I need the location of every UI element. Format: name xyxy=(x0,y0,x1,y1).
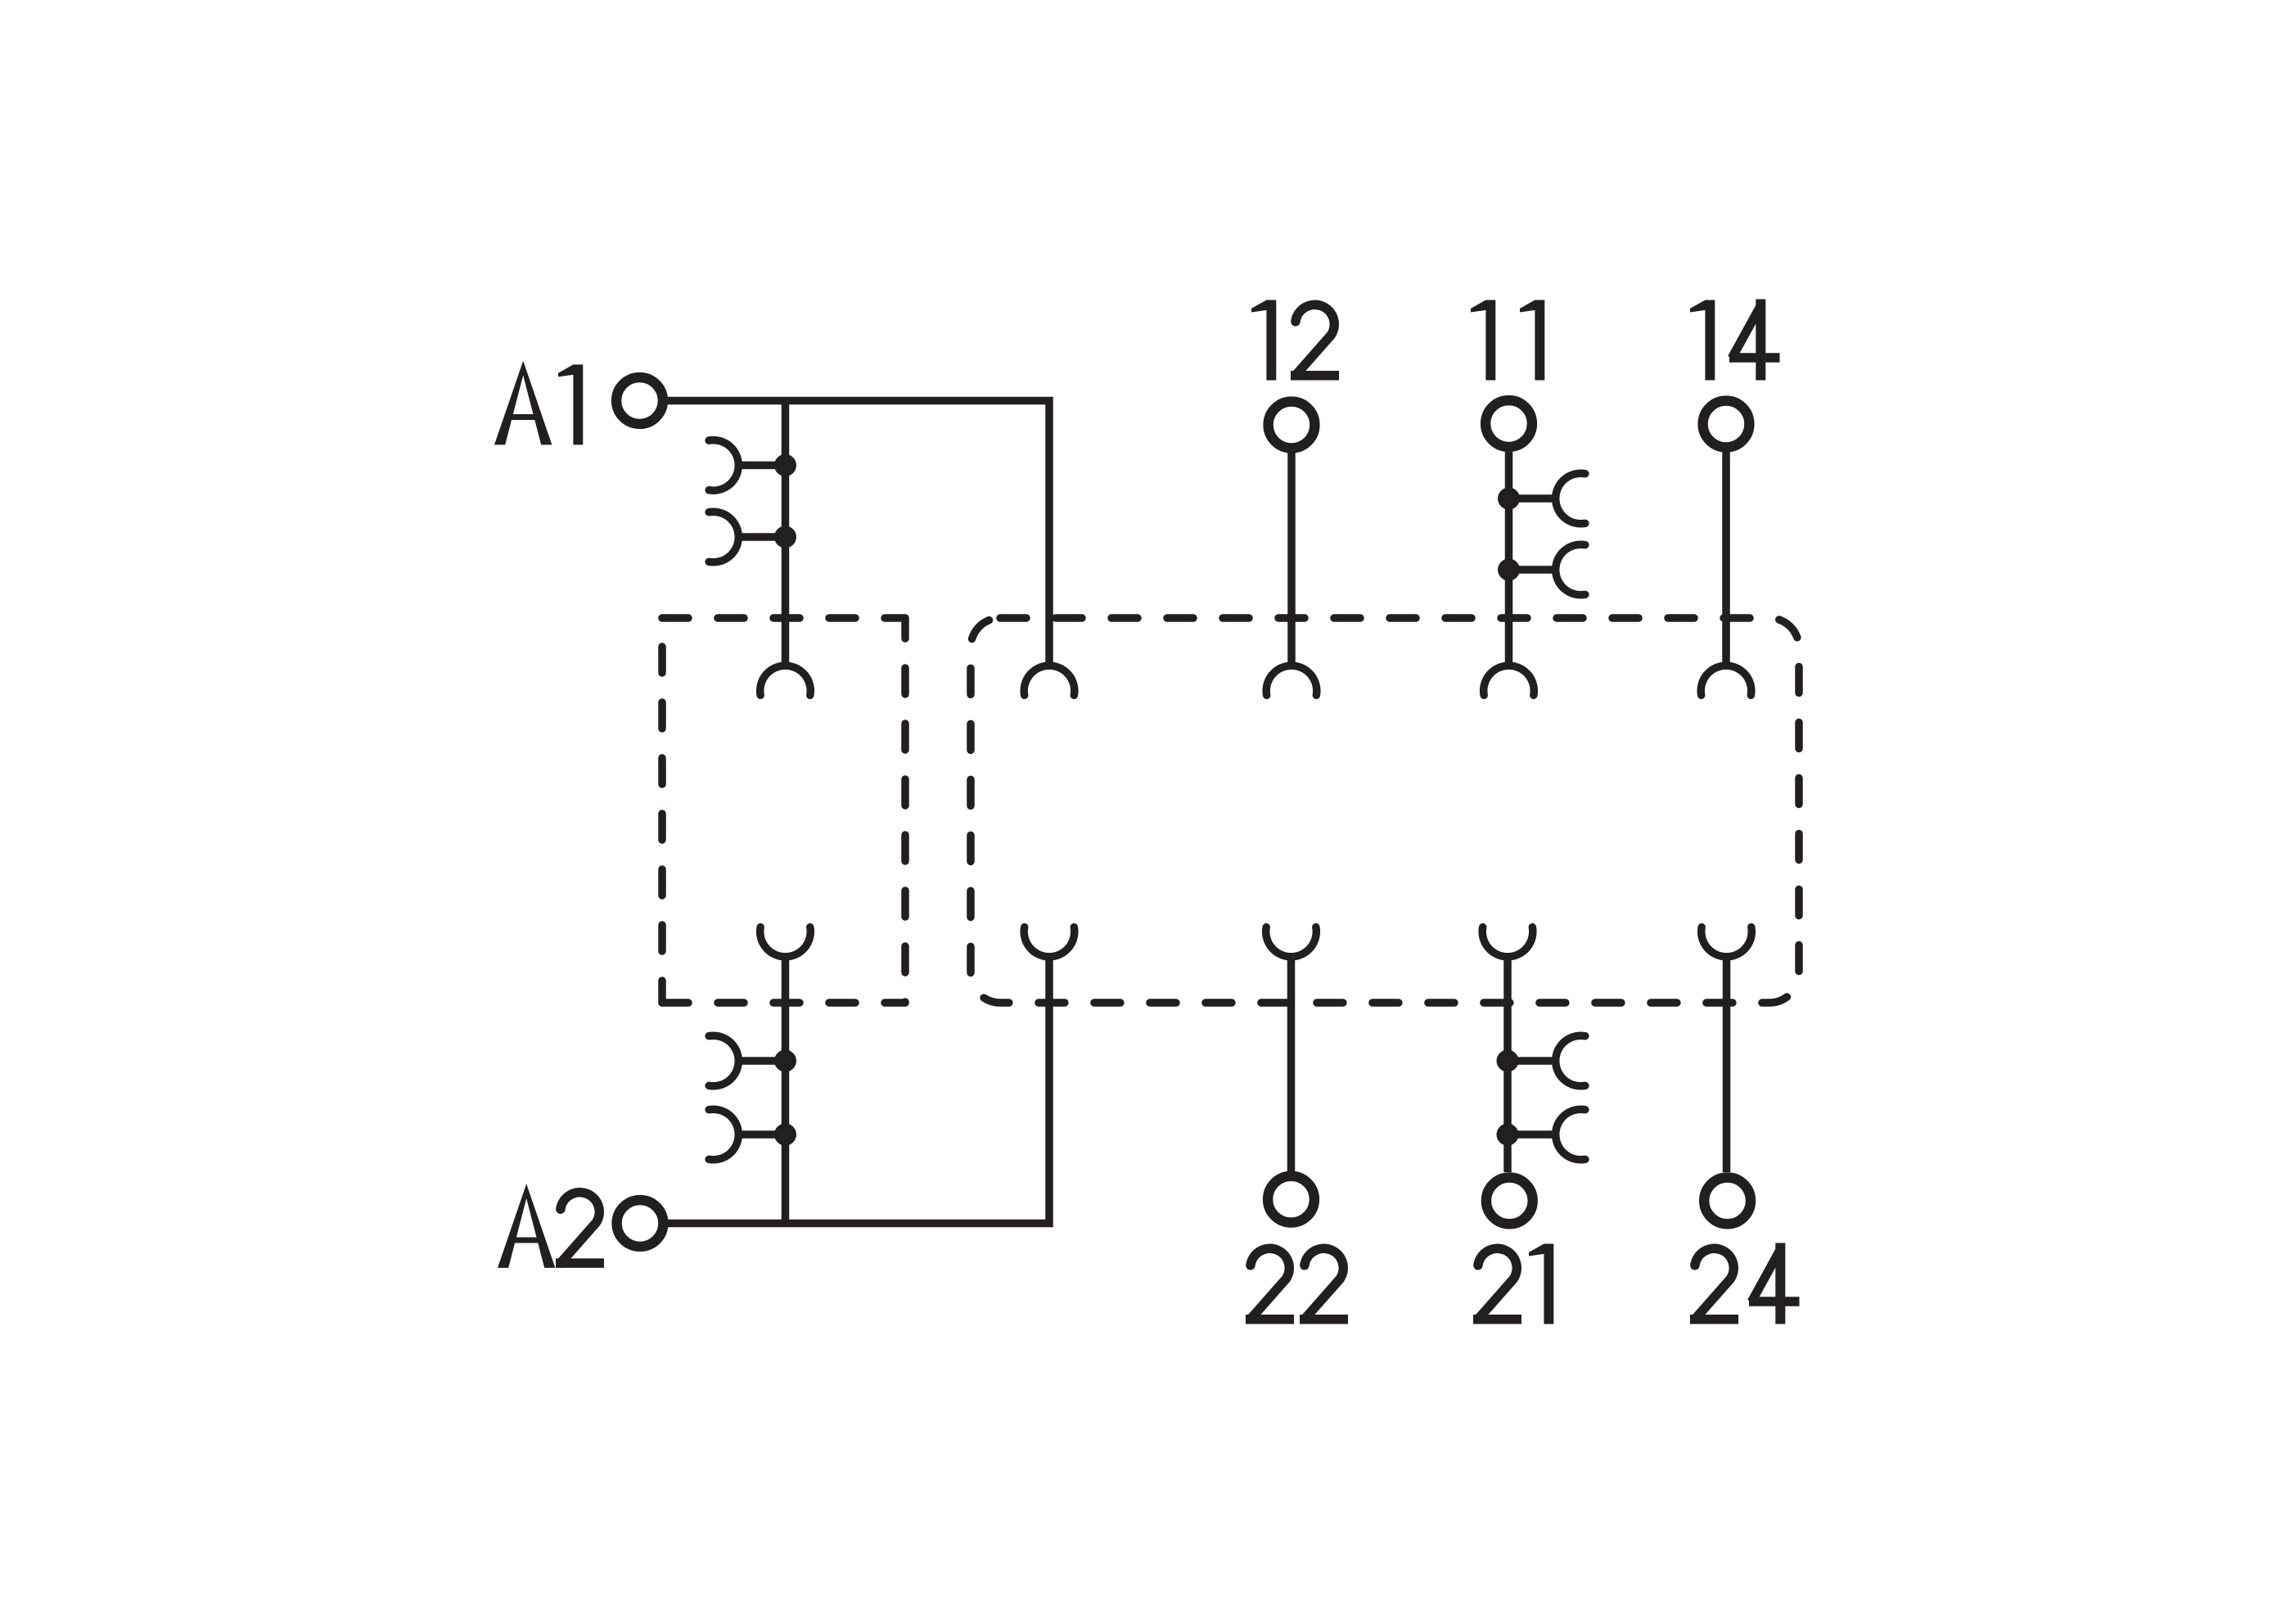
terminal 12 xyxy=(1269,402,1315,449)
socket fork coil-bottom upper-left xyxy=(709,1035,738,1086)
terminal 21 xyxy=(1486,1178,1533,1225)
terminal 11 xyxy=(1485,400,1532,447)
wire 21 xyxy=(1503,957,1512,1173)
socket fork 21 lower-right xyxy=(1556,1109,1585,1160)
label 12 xyxy=(1251,300,1339,381)
wire 24 xyxy=(1723,957,1731,1173)
socket fork coil-bottom lower-left xyxy=(709,1109,738,1160)
junction dot 21 upper xyxy=(1497,1050,1519,1072)
junction dot 21 lower xyxy=(1497,1124,1519,1146)
dashed box relay module xyxy=(971,618,1799,1003)
socket fork 21 (up) xyxy=(1482,927,1533,957)
label 24 xyxy=(1690,1243,1800,1324)
stub 21 lower xyxy=(1508,1130,1556,1139)
wire 22 xyxy=(1287,957,1296,1172)
stub coil-bottom upper-left xyxy=(738,1057,786,1065)
terminal 24 xyxy=(1704,1178,1751,1225)
plug contact fork coil (down) xyxy=(760,665,811,695)
socket fork 11 upper-right xyxy=(1556,473,1585,524)
label A1 xyxy=(494,361,583,445)
wire coil vertical (top) xyxy=(782,399,790,666)
socket fork branch return (up) xyxy=(1024,927,1075,957)
terminal 14 xyxy=(1703,401,1750,448)
plug contact fork 12 (down) xyxy=(1266,665,1317,695)
stub coil lower-left xyxy=(738,533,786,541)
socket fork coil lower-left xyxy=(709,512,738,562)
wire A2 to branch corner xyxy=(668,957,1049,1224)
stub 11 lower xyxy=(1509,566,1557,574)
terminal A2 xyxy=(617,1200,664,1247)
plug contact fork branch (down) xyxy=(1024,665,1075,695)
junction dot coil upper-left xyxy=(774,454,796,476)
terminal A1 xyxy=(616,377,663,424)
label 14 xyxy=(1690,300,1780,381)
label A2 xyxy=(498,1184,604,1268)
label 21 xyxy=(1473,1244,1553,1324)
socket fork 22 (up) xyxy=(1266,927,1317,957)
label 11 xyxy=(1471,300,1544,381)
plug contact fork 14 (down) xyxy=(1701,665,1751,695)
socket fork coil upper-left xyxy=(709,440,738,491)
stub coil upper-left xyxy=(738,462,786,470)
wire A1 to branch corner xyxy=(668,401,1050,666)
socket fork 21 upper-right xyxy=(1556,1035,1585,1086)
junction dot coil-bottom upper-left xyxy=(774,1050,796,1072)
socket fork 24 (up) xyxy=(1702,927,1752,957)
wire coil vertical (bottom) xyxy=(782,957,790,1224)
junction dot coil-bottom lower-left xyxy=(774,1124,796,1146)
label 22 xyxy=(1246,1248,1348,1319)
junction dot 11 upper xyxy=(1498,488,1520,510)
dashed box coil module xyxy=(662,614,905,622)
terminal 22 xyxy=(1268,1176,1314,1223)
wire 11 xyxy=(1505,452,1513,666)
junction dot 11 lower xyxy=(1498,559,1520,581)
socket fork 11 lower-right xyxy=(1556,544,1585,595)
wire 14 xyxy=(1722,453,1730,666)
junction dot coil lower-left xyxy=(774,526,796,548)
stub 11 upper xyxy=(1509,494,1557,503)
plug contact fork 11 (down) xyxy=(1484,665,1535,695)
wire 12 xyxy=(1287,453,1296,666)
socket fork coil return (up) xyxy=(760,927,811,957)
stub 21 upper xyxy=(1508,1057,1556,1065)
stub coil-bottom lower-left xyxy=(738,1130,786,1139)
